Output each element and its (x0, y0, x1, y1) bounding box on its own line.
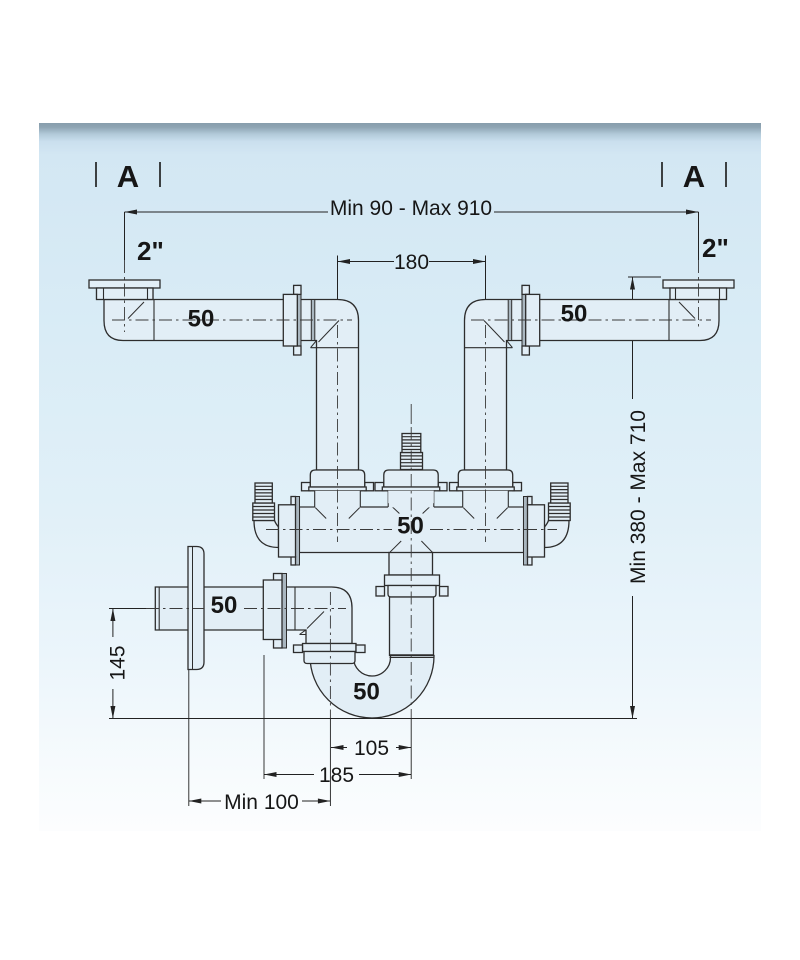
svg-text:A: A (117, 159, 139, 194)
svg-text:50: 50 (397, 513, 424, 540)
svg-text:Min 90 - Max 910: Min 90 - Max 910 (330, 197, 492, 220)
svg-text:Min 380 - Max 710: Min 380 - Max 710 (627, 410, 650, 584)
svg-text:180: 180 (394, 251, 429, 274)
svg-text:105: 105 (354, 737, 389, 760)
svg-text:50: 50 (188, 306, 215, 333)
svg-text:145: 145 (107, 645, 130, 680)
svg-text:2": 2" (702, 233, 729, 263)
svg-text:Min 100: Min 100 (224, 791, 299, 814)
svg-text:50: 50 (353, 679, 380, 706)
svg-text:50: 50 (211, 592, 238, 619)
svg-text:185: 185 (319, 764, 354, 787)
svg-text:A: A (683, 159, 705, 194)
svg-text:2": 2" (137, 236, 164, 266)
svg-text:50: 50 (561, 301, 588, 328)
